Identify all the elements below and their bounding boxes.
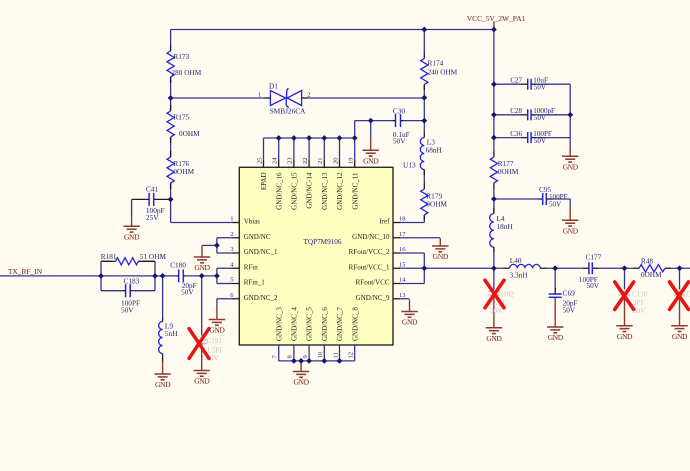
ground C30 node [363,121,380,166]
svg-text:50V: 50V [549,200,562,208]
wire far right DNP tap [679,268,681,289]
svg-text:1.5PF: 1.5PF [207,347,224,355]
svg-text:50V: 50V [393,137,406,146]
capacitor C95 [538,193,553,205]
wire TVS clamp net [171,97,425,99]
C182 labels [490,290,514,315]
svg-text:RFout/VCC_2: RFout/VCC_2 [349,248,390,256]
U13 right pin names [349,218,391,302]
wire pin17 gnd stub [400,237,440,239]
svg-text:Iref: Iref [379,218,390,226]
svg-text:C130: C130 [632,290,648,298]
svg-text:C182: C182 [498,290,514,298]
svg-text:14: 14 [399,277,406,284]
L3 labels [426,138,443,155]
svg-text:GND/NC_4: GND/NC_4 [291,307,299,341]
U13 top pin numbers 25-19 [256,157,354,164]
svg-text:R181: R181 [101,252,117,261]
svg-text:22: 22 [302,157,309,164]
svg-text:GND/NC: GND/NC [244,233,271,241]
svg-text:GND: GND [563,163,579,172]
wire left bias column R175-R176 segment [170,137,172,157]
wire input line to C180 [101,275,176,277]
svg-text:EPAD: EPAD [260,173,268,191]
wire C27 row right [536,83,571,85]
svg-text:51 OHM: 51 OHM [140,252,167,261]
svg-text:R175: R175 [173,113,189,122]
R181 labels [101,252,167,261]
C30 labels [393,107,410,146]
svg-text:VCC_5V_2W_PA1: VCC_5V_2W_PA1 [467,14,526,23]
svg-text:GND/NC_3: GND/NC_3 [275,307,283,341]
inductor L9 [159,318,163,362]
svg-text:GND: GND [124,233,140,242]
wire pins16-14 tie bar [400,253,424,284]
svg-text:C36: C36 [510,130,522,138]
U13 bottom pin numbers 7-12 [272,351,355,358]
svg-text:RFout/VCC: RFout/VCC [356,279,390,287]
svg-text:0OHM: 0OHM [498,167,519,176]
svg-text:GND: GND [486,334,502,343]
R179 labels [426,192,447,209]
svg-text:GND/NC_12: GND/NC_12 [336,172,344,210]
svg-text:R173: R173 [173,52,189,61]
svg-text:0OHM: 0OHM [426,200,447,209]
wire left bias column R173-R175 segment [170,77,172,111]
U13 reference designator [403,161,416,170]
C41 labels [146,185,165,222]
ground cap bank [562,138,579,172]
ground pins 2-3 [194,245,211,272]
wire pin13 gnd stub [400,298,409,300]
capacitor C28 [521,109,536,120]
wire C36 row right [536,137,571,139]
resistor R173 [167,45,174,83]
svg-text:C41: C41 [146,185,159,194]
svg-text:13: 13 [399,292,406,299]
R177 labels [498,159,519,176]
svg-text:GND: GND [433,252,449,261]
svg-text:C1: C1 [686,290,690,298]
wire input match right bar [154,261,156,290]
wire C191 tap [201,276,203,336]
svg-text:GND: GND [293,378,309,387]
svg-text:50V: 50V [534,114,547,122]
inductor L3 [420,132,424,176]
svg-text:GND/NC_15: GND/NC_15 [291,172,299,210]
svg-text:GND/NC_16: GND/NC_16 [275,172,283,210]
R173 labels [172,52,202,77]
ground bottom bus [293,361,310,387]
svg-text:RFin: RFin [244,263,259,271]
svg-text:Vbias: Vbias [244,218,261,226]
wire C95 row left [494,198,538,200]
inductor L4 [490,208,494,253]
U13 left pin numbers 1-6 [230,216,234,299]
capacitor C130 (DNP) [619,291,630,325]
svg-text:GND/NC_11: GND/NC_11 [351,172,359,210]
svg-text:3.3nH: 3.3nH [510,270,529,279]
L40 labels [510,256,529,280]
wire C95 row right [553,198,571,200]
svg-text:GND/NC-14: GND/NC-14 [306,172,314,209]
wire R179 to pin18 [400,215,424,223]
C191 labels [207,337,224,363]
ground pin 17 [432,238,449,261]
svg-text:C180: C180 [170,260,186,269]
svg-text:50V: 50V [563,306,576,315]
svg-text:50V: 50V [490,307,503,315]
wire C28 row left [494,114,521,116]
svg-text:C183: C183 [124,277,140,286]
C28 labels [510,107,555,122]
svg-text:GND/NC_13: GND/NC_13 [321,172,329,210]
U13 right pin numbers 18-13 [399,216,406,299]
svg-text:GND: GND [672,332,688,341]
svg-text:19: 19 [348,157,355,164]
resistor R177 [490,151,497,189]
svg-text:C177: C177 [586,252,602,261]
svg-text:50V: 50V [534,83,547,91]
svg-text:25: 25 [256,157,263,164]
svg-text:C69: C69 [563,289,576,298]
D1 labels [258,82,310,116]
U13 left pin leads [233,223,240,299]
wire C27 row left [494,83,521,85]
capacitor C69 [549,288,562,327]
R48 labels [641,257,662,279]
svg-text:TX_RF_IN: TX_RF_IN [8,267,43,276]
wire D1 junction down to C30 node [423,98,425,121]
svg-text:GND/NC_2: GND/NC_2 [244,294,278,302]
svg-text:U13: U13 [403,161,416,170]
wire pin19 riser to C30 row [354,121,356,138]
resistor R179 [421,183,428,220]
wire bottom pin bus [279,360,355,362]
svg-text:GND/NC_1: GND/NC_1 [244,248,278,256]
wire C28 row right [536,114,571,116]
svg-text:16: 16 [399,246,406,253]
svg-text:GND/NC_7: GND/NC_7 [336,307,344,341]
wire C183 branch [101,290,155,292]
U13 top pin names [260,172,359,210]
resistor R175 [167,105,174,143]
ground C41 [123,216,140,242]
ground pin 6 [209,307,226,335]
capacitor C191 (DNP) [196,340,207,371]
capacitor C27 [521,79,536,90]
svg-text:SMBJ26CA: SMBJ26CA [270,106,306,115]
svg-text:GND/NC_5: GND/NC_5 [306,307,314,341]
svg-text:0OHM: 0OHM [641,270,662,279]
wire output rail [424,267,690,269]
svg-text:GND: GND [548,333,564,342]
wire C30 node to L3 [423,121,425,132]
svg-text:GND/NC_9: GND/NC_9 [356,294,390,302]
svg-text:RFout/VCC_1: RFout/VCC_1 [349,263,390,271]
op-amp U13 TQP7M9106 body [239,167,393,345]
svg-text:12: 12 [348,352,355,359]
U13 top pin leads [264,138,355,167]
U13 part name [304,238,342,246]
svg-text:GND: GND [194,263,210,272]
svg-text:C27: C27 [510,77,522,85]
svg-text:R174: R174 [428,59,444,68]
wire pin6 stub [217,299,233,307]
capacitor C182 (DNP) [488,291,499,327]
svg-text:1: 1 [230,216,233,223]
svg-text:1: 1 [258,92,261,99]
ground C95 [562,199,579,236]
svg-text:GND: GND [194,377,210,386]
DNP mark C191 [189,329,209,359]
DNP mark far right [670,282,689,310]
svg-text:C30: C30 [393,107,406,116]
capacitor C183 [124,284,133,297]
wire TX_RF_IN input [0,275,101,277]
svg-text:20: 20 [332,157,339,164]
ground C182 [486,328,503,343]
svg-text:2: 2 [307,92,310,99]
wire Vbias pin1 feed [171,199,233,222]
svg-text:TQP7M9106: TQP7M9106 [304,238,342,246]
capacitor C177 [583,262,598,274]
C180 labels [170,260,197,296]
svg-text:68nH: 68nH [426,146,443,155]
capacitor C30 [393,114,403,127]
C69 labels [563,289,578,315]
wire VCC column R177-C95 segment [493,189,495,214]
wire pins2-3 gnd stub [202,244,217,246]
wire left bias column upper segment [170,30,172,46]
R176 labels [173,159,194,176]
capacitor C36 [521,132,536,143]
svg-text:GND: GND [363,157,379,166]
svg-text:50V: 50V [181,288,194,297]
ground C69 [547,327,564,342]
wire input match left bar [100,261,102,290]
L9 labels [165,322,178,339]
svg-text:3PF: 3PF [633,299,644,307]
svg-text:GND: GND [155,380,171,389]
R175 labels [173,113,200,139]
DNP mark C182 [485,280,504,308]
wire VCC column top segment [493,30,495,152]
R174 labels [428,59,458,77]
capacitor C41 [132,193,171,216]
diode D1 SMBJ26CA [264,89,308,108]
wire C182 tap [493,268,495,289]
inductor L40 [504,264,547,268]
wire C69 tap [554,268,556,290]
wire pins4-5 tie bar [217,268,233,283]
svg-text:15: 15 [399,261,406,268]
wire VCC top rail [171,29,494,31]
DNP mark C130 [615,282,634,310]
U13 bottom pin names [275,307,359,341]
svg-text:C28: C28 [510,107,522,115]
C36 labels [510,130,552,145]
C27 labels [510,77,548,92]
svg-text:GND: GND [402,318,418,327]
wire C30 left segment [355,120,394,122]
svg-text:GND: GND [209,326,225,335]
svg-text:GND: GND [617,332,633,341]
U13 right pin leads [393,223,400,299]
C177 labels [579,252,602,290]
svg-text:C191: C191 [207,337,223,345]
svg-text:R48: R48 [641,257,654,266]
resistor R181 [101,258,155,265]
svg-text:280 OHM: 280 OHM [172,68,202,77]
ground L9 [154,362,171,390]
svg-text:25V: 25V [146,213,159,222]
svg-text:50V: 50V [534,137,547,145]
svg-text:21: 21 [317,157,324,164]
wire R181 branch [101,260,155,262]
wire L9 tap [162,276,164,318]
svg-text:RFin_1: RFin_1 [244,279,266,287]
capacitor C156 (DNP far right) [674,290,690,325]
resistor R174 [421,53,428,91]
wire C180 to tie bar [186,275,217,277]
C95 labels [539,185,568,208]
wire top pin bus [264,137,355,139]
svg-text:24: 24 [272,157,279,164]
U13 left pin names [244,218,278,302]
net label VCC_5V_2W_PA1 [467,14,526,23]
svg-text:11: 11 [332,352,339,358]
svg-text:10: 10 [317,351,324,358]
wire C130 tap [624,268,626,289]
C183 labels [121,277,140,315]
svg-text:0OHM: 0OHM [173,167,194,176]
wire cap bank right bar [569,84,571,137]
svg-text:50V: 50V [633,307,646,315]
svg-text:50V: 50V [587,281,600,290]
svg-text:18nH: 18nH [497,222,514,231]
power flag VCC_5V_2W_PA1 [493,22,495,30]
ground C130 [616,326,633,341]
resistor R48 [633,265,671,272]
ground far right DNP [671,326,688,341]
svg-text:50V: 50V [121,305,134,314]
net label TX_RF_IN [8,267,43,276]
svg-text:18: 18 [399,216,406,223]
svg-text:2: 2 [230,231,233,238]
svg-text:5nH: 5nH [165,329,178,338]
svg-text:GND/NC_10: GND/NC_10 [352,233,390,241]
L4 labels [497,214,514,231]
svg-text:L40: L40 [510,256,522,265]
wire VCC column L4 lead [493,247,495,268]
resistor R176 [167,151,174,189]
svg-text:23: 23 [287,157,294,164]
C130 labels [632,290,648,315]
wire left bias column R176-C41 segment [170,183,172,199]
svg-text:GND/NC_6: GND/NC_6 [321,307,329,341]
ground pin 13 [401,299,418,326]
wire C30 right segment [402,120,424,122]
svg-text:240 OHM: 240 OHM [428,68,458,77]
svg-text:D1: D1 [269,82,278,91]
wire L3 to R179 [423,170,425,184]
svg-text:17: 17 [399,231,406,238]
U13 bottom pin leads [279,345,355,361]
capacitor C180 [176,269,186,282]
ground C191 [194,371,211,386]
wire R174 to D1 junction [423,85,425,99]
svg-text:GND/NC_8: GND/NC_8 [351,307,359,341]
wire pins2-3 tie bar [217,238,233,253]
wire C36 row left [494,137,521,139]
wire R174 branch upper [423,30,425,53]
svg-text:GND: GND [563,227,579,236]
svg-text:0OHM: 0OHM [179,129,200,138]
